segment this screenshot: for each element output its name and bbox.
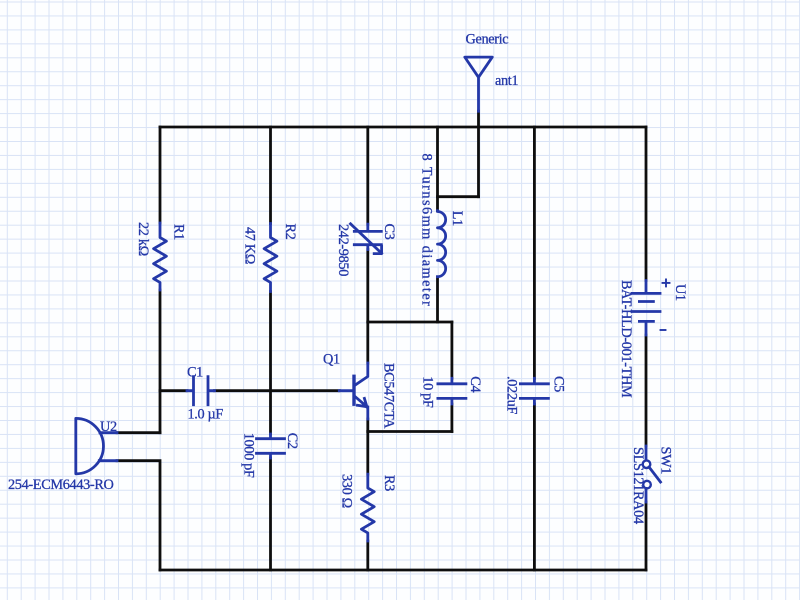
transistor Q1	[339, 363, 368, 419]
battery U1	[632, 279, 670, 335]
wire C1 left	[160, 389, 187, 392]
svg-text:R2: R2	[282, 224, 298, 240]
wire R2 bottom to C2	[269, 292, 272, 435]
wire box bottom	[368, 430, 452, 433]
inductor L1	[438, 211, 446, 277]
svg-text:C1: C1	[187, 365, 203, 381]
wire antenna stem lower	[477, 111, 480, 197]
capacitor C5	[520, 378, 548, 404]
svg-text:242-9850: 242-9850	[335, 224, 351, 276]
wire C5 bottom	[533, 404, 536, 570]
wire switch bottom	[645, 502, 648, 570]
wire mic top terminal	[117, 431, 160, 434]
wire collector upper	[366, 322, 369, 363]
svg-text:BAT-HLD-001-THM: BAT-HLD-001-THM	[618, 280, 634, 398]
wire C3 top	[366, 127, 369, 224]
capacitor C1	[187, 377, 215, 405]
svg-text:254-ECM6443-RO: 254-ECM6443-RO	[8, 477, 114, 493]
wire R2 top	[269, 127, 272, 224]
resistor R1	[154, 223, 167, 290]
wire C5 top	[533, 127, 536, 378]
wire battery to switch	[645, 335, 648, 446]
svg-text:Generic: Generic	[466, 31, 509, 47]
wire L1 top	[436, 127, 439, 211]
svg-text:C3: C3	[381, 224, 397, 240]
svg-text:1000 pF: 1000 pF	[241, 433, 257, 478]
svg-text:U1: U1	[672, 284, 688, 301]
antenna ant1	[465, 57, 493, 111]
svg-text:10 pF: 10 pF	[420, 376, 436, 408]
resistor R3	[361, 474, 374, 541]
svg-text:C4: C4	[467, 376, 483, 392]
wire C3 bottom to box	[366, 250, 369, 323]
wire mic bottom terminal	[117, 461, 160, 570]
svg-text:U2: U2	[100, 419, 117, 435]
wire box top	[368, 321, 452, 324]
wire left vertical upper (bus to R1)	[159, 127, 162, 223]
resistor R2	[264, 224, 277, 292]
wire emitter lower	[366, 419, 369, 432]
svg-text:R1: R1	[171, 224, 187, 240]
wire C4 top	[450, 322, 453, 378]
wire bottom bus	[160, 569, 646, 572]
wire battery top	[645, 127, 648, 281]
wire C2 bottom	[269, 458, 272, 570]
wire left vertical mid (R1 to mic top node)	[159, 290, 162, 433]
svg-text:1.0 µF: 1.0 µF	[188, 406, 224, 422]
svg-text:SLS121RA04: SLS121RA04	[630, 447, 646, 524]
wire R3 bottom	[366, 541, 369, 570]
capacitor C3 (variable)	[351, 224, 382, 254]
wire antenna to L1	[438, 195, 479, 198]
microphone U2	[76, 418, 117, 473]
capacitor C4	[438, 378, 466, 404]
svg-text:L1: L1	[449, 211, 465, 226]
capacitor C2	[257, 434, 285, 458]
wire R3 top	[366, 432, 369, 475]
svg-text:8 Turns6mm diameter: 8 Turns6mm diameter	[419, 154, 435, 308]
svg-text:SW1: SW1	[658, 447, 674, 475]
switch SW1	[643, 446, 661, 502]
wire C1 right to base node	[215, 389, 340, 392]
svg-text:C5: C5	[550, 376, 566, 392]
svg-text:330 Ω: 330 Ω	[339, 474, 355, 508]
svg-text:22 kΩ: 22 kΩ	[135, 222, 151, 256]
svg-text:47 KΩ: 47 KΩ	[242, 227, 258, 264]
wire C4 bottom	[450, 404, 453, 432]
svg-text:BC547CTA: BC547CTA	[381, 363, 397, 429]
svg-text:.022uF: .022uF	[504, 376, 520, 414]
svg-text:R3: R3	[381, 475, 397, 491]
wire top bus	[160, 126, 646, 129]
svg-text:Q1: Q1	[323, 352, 340, 368]
svg-text:ant1: ant1	[495, 73, 518, 89]
svg-text:C2: C2	[284, 433, 300, 449]
wire L1 bottom	[436, 277, 439, 322]
